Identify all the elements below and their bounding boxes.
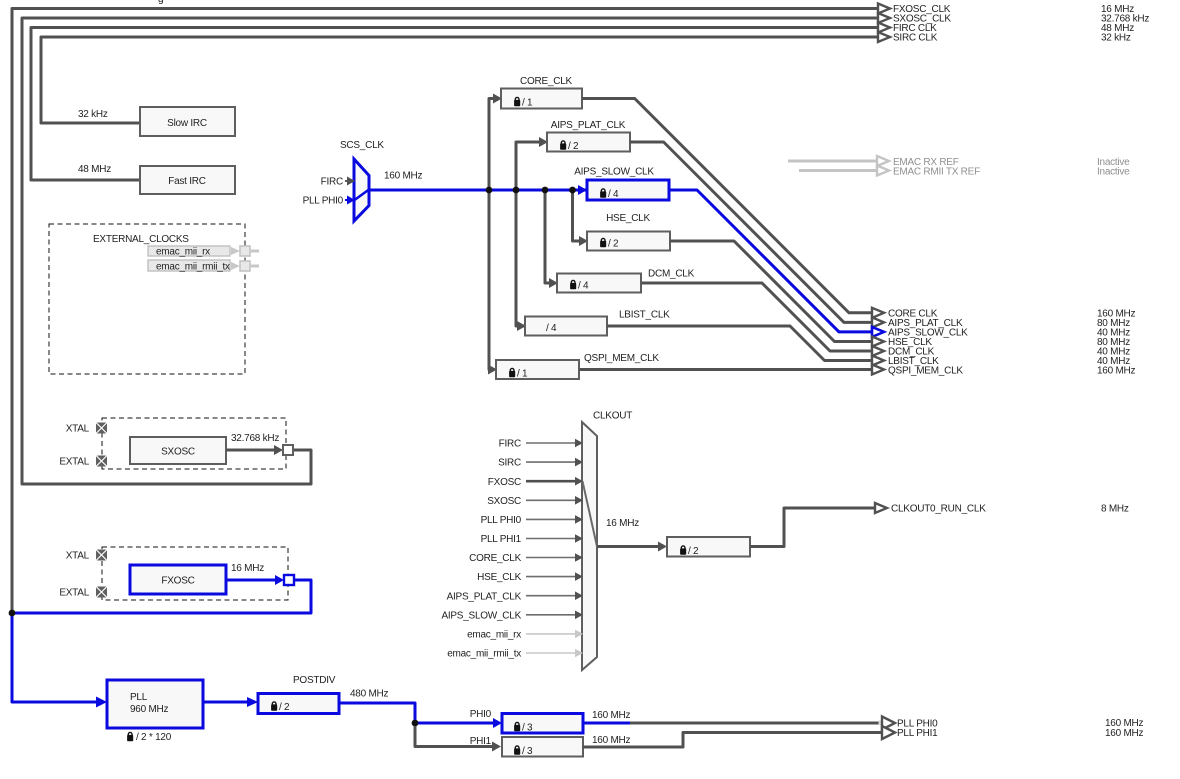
svg-text:CLKOUT: CLKOUT (593, 411, 632, 422)
block SXOSC (130, 437, 226, 464)
output arrow HSE_CLK (872, 337, 884, 347)
port FXOSC output (284, 575, 294, 585)
svg-text:FXOSC: FXOSC (161, 576, 194, 587)
wire PHI1 output (583, 733, 882, 748)
svg-text:32 kHz: 32 kHz (1101, 33, 1131, 44)
output arrow PLL PHI1 (882, 726, 895, 739)
node junction v2 (513, 187, 520, 194)
svg-text:FIRC: FIRC (321, 177, 343, 188)
wire FXOSC output loop to PLL (blue) (12, 580, 311, 702)
wire CLKOUT output to divider (597, 545, 659, 548)
wire FXOSC_CLK loop (left vertical + top run) (12, 9, 877, 614)
block PLL (107, 680, 203, 728)
svg-text:/ 2: / 2 (688, 546, 699, 557)
svg-text:XTAL: XTAL (66, 424, 90, 435)
svg-text:Inactive: Inactive (1097, 166, 1130, 177)
svg-text:160 MHz: 160 MHz (1105, 728, 1144, 739)
svg-text:/ 2: / 2 (608, 239, 619, 250)
EXTERNAL_CLOCKS dashed container (49, 224, 245, 374)
wire LBIST_CLK output (607, 326, 872, 361)
wire SXOSC output to port (226, 449, 275, 452)
svg-text:PHI0: PHI0 (470, 709, 492, 720)
svg-text:PLL PHI0: PLL PHI0 (481, 515, 522, 526)
wire AIPS_PLAT_CLK output (630, 142, 872, 322)
wire FXOSC output to port (226, 579, 276, 582)
svg-text:AIPS_SLOW_CLK: AIPS_SLOW_CLK (574, 167, 654, 178)
svg-text:FIRC: FIRC (499, 439, 521, 450)
svg-text:EXTERNAL_CLOCKS: EXTERNAL_CLOCKS (93, 234, 189, 245)
svg-text:16 MHz: 16 MHz (231, 563, 264, 574)
svg-text:160 MHz: 160 MHz (592, 735, 631, 746)
svg-text:/ 3: / 3 (522, 746, 533, 757)
wire SXOSC_CLK loop (22, 18, 877, 484)
svg-text:QSPI_MEM_CLK: QSPI_MEM_CLK (888, 366, 963, 377)
svg-text:g: g (158, 0, 163, 5)
svg-text:32 kHz: 32 kHz (78, 109, 108, 120)
svg-text:/ 4: / 4 (608, 189, 619, 200)
wire vertical feeder v2 (AIPS_PLAT/LBIST) (516, 142, 540, 326)
svg-text:/ 2 * 120: / 2 * 120 (136, 732, 172, 743)
svg-text:/ 3: / 3 (522, 723, 533, 734)
wire PLL to POSTDIV (203, 701, 248, 704)
output arrow CORE CLK (872, 308, 884, 318)
mux CLKOUT selected diagonal (FXOSC) (583, 481, 598, 546)
svg-text:48 MHz: 48 MHz (78, 164, 111, 175)
block Slow IRC (140, 107, 235, 136)
svg-text:XTAL: XTAL (66, 551, 90, 562)
svg-text:CORE_CLK: CORE_CLK (520, 76, 572, 87)
svg-text:SCS_CLK: SCS_CLK (340, 140, 384, 151)
svg-text:PLL PHI0: PLL PHI0 (303, 196, 344, 207)
port emac_mii_rmii_tx (148, 260, 230, 271)
output arrow SIRC CLK (878, 32, 890, 42)
svg-text:EMAC RMII TX REF: EMAC RMII TX REF (893, 166, 980, 177)
svg-text:480 MHz: 480 MHz (350, 689, 389, 700)
svg-text:/ 4: / 4 (578, 281, 589, 292)
wire to PHI1 divider (415, 726, 493, 747)
svg-text:AIPS_PLAT_CLK: AIPS_PLAT_CLK (447, 591, 522, 602)
wire EMAC RX REF (inactive) (788, 160, 877, 163)
output arrow QSPI_MEM_CLK (872, 365, 884, 375)
svg-text:emac_mii_rmii_tx: emac_mii_rmii_tx (156, 262, 230, 273)
block FXOSC (130, 565, 226, 594)
node FXOSC/PLL junction (9, 610, 16, 617)
svg-text:SIRC CLK: SIRC CLK (893, 33, 938, 44)
port SXOSC output (283, 445, 293, 455)
svg-text:emac_mii_rx: emac_mii_rx (156, 247, 210, 258)
wire CORE_CLK output (582, 99, 872, 313)
wire vertical feeder v1 (CORE/QSPI) (489, 99, 494, 370)
node PHI junction (412, 720, 419, 727)
svg-text:CLKOUT0_RUN_CLK: CLKOUT0_RUN_CLK (891, 504, 986, 515)
wire QSPI_MEM_CLK output (579, 368, 872, 371)
svg-text:/ 1: / 1 (517, 369, 528, 380)
output arrow PLL PHI0 (882, 717, 895, 730)
FXOSC dashed container (102, 547, 288, 600)
svg-text:AIPS_PLAT_CLK: AIPS_PLAT_CLK (551, 120, 626, 131)
wire vertical feeder v3 (DCM) (545, 190, 550, 283)
block PLL input arrow (96, 697, 107, 708)
svg-text:emac_mii_rx: emac_mii_rx (467, 630, 521, 641)
wire SIRC CLK loop (from Slow IRC) (41, 37, 877, 123)
wire vertical feeder v4 (HSE) (573, 190, 581, 241)
svg-text:960 MHz: 960 MHz (130, 704, 169, 715)
wire SCS_CLK 160MHz main blue bus (369, 189, 586, 192)
svg-text:emac_mii_rmii_tx: emac_mii_rmii_tx (447, 649, 521, 660)
svg-text:SXOSC: SXOSC (161, 447, 195, 458)
node junction v4 (569, 187, 576, 194)
svg-text:/ 4: / 4 (546, 323, 557, 334)
wire EMAC RMII TX REF (inactive) (799, 169, 877, 172)
output arrow AIPS_PLAT_CLK (872, 317, 884, 327)
svg-text:POSTDIV: POSTDIV (293, 675, 336, 686)
svg-text:HSE_CLK: HSE_CLK (477, 572, 521, 583)
svg-text:CORE_CLK: CORE_CLK (469, 553, 521, 564)
output arrow LBIST_CLK (872, 356, 884, 366)
svg-text:Slow IRC: Slow IRC (167, 118, 207, 129)
SXOSC dashed container (102, 418, 286, 469)
svg-text:AIPS_SLOW_CLK: AIPS_SLOW_CLK (441, 610, 521, 621)
svg-text:/ 1: / 1 (522, 98, 533, 109)
output arrow FXOSC_CLK (878, 4, 890, 14)
block Fast IRC (140, 166, 235, 194)
output arrow SXOSC_CLK (878, 13, 890, 23)
svg-text:FXOSC: FXOSC (488, 477, 521, 488)
wire CLKOUT0_RUN_CLK (750, 508, 875, 547)
svg-text:16 MHz: 16 MHz (606, 518, 639, 529)
svg-text:QSPI_MEM_CLK: QSPI_MEM_CLK (584, 353, 659, 364)
svg-text:HSE_CLK: HSE_CLK (606, 213, 650, 224)
wire HSE_CLK output (670, 241, 872, 342)
output arrow CLKOUT0_RUN_CLK (875, 503, 887, 513)
wire POSTDIV output (339, 703, 493, 723)
svg-text:PLL PHI1: PLL PHI1 (481, 534, 522, 545)
svg-text:32.768 kHz: 32.768 kHz (231, 433, 279, 444)
output arrow AIPS_SLOW_CLK (blue) (872, 327, 884, 337)
svg-text:DCM_CLK: DCM_CLK (648, 269, 695, 280)
wire DCM_CLK output (641, 283, 872, 351)
port emac_mii_rx (148, 246, 230, 256)
label PLL multiplier (127, 732, 133, 741)
svg-text:160 MHz: 160 MHz (384, 171, 423, 182)
divider CLKOUT /2 (667, 537, 750, 557)
mux CLKOUT body (582, 422, 597, 670)
svg-text:160 MHz: 160 MHz (1097, 366, 1136, 377)
svg-text:SXOSC: SXOSC (487, 496, 521, 507)
svg-text:EXTAL: EXTAL (59, 588, 89, 599)
svg-text:PLL PHI1: PLL PHI1 (897, 728, 938, 739)
svg-text:EXTAL: EXTAL (59, 457, 89, 468)
output arrow FIRC CLK (878, 23, 890, 33)
node junction v1 (486, 187, 493, 194)
svg-text:Fast IRC: Fast IRC (168, 176, 205, 187)
node junction v3 (542, 187, 549, 194)
svg-text:PHI1: PHI1 (470, 736, 492, 747)
svg-text:/ 2: / 2 (568, 141, 579, 152)
output arrow DCM_CLK (872, 346, 884, 356)
svg-text:8 MHz: 8 MHz (1101, 504, 1129, 515)
svg-text:160 MHz: 160 MHz (592, 710, 631, 721)
svg-text:SIRC: SIRC (498, 458, 521, 469)
wire PHI0 output (blue then gray) (583, 722, 630, 725)
wire AIPS_SLOW_CLK output (blue) (669, 190, 872, 332)
mux SCS_CLK body (354, 159, 369, 221)
svg-text:/ 2: / 2 (279, 702, 290, 713)
svg-text:LBIST_CLK: LBIST_CLK (619, 310, 670, 321)
svg-text:PLL: PLL (130, 692, 148, 703)
mux SCS_CLK selected path diagonal (355, 190, 370, 201)
wire FIRC CLK loop (from Fast IRC) (31, 28, 877, 181)
